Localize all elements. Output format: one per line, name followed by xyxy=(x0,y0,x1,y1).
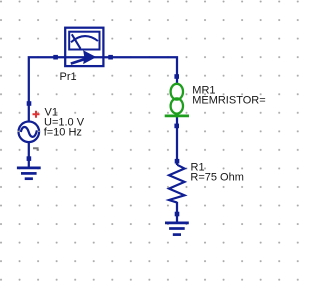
ground left xyxy=(17,168,41,179)
svg-text:Pr1: Pr1 xyxy=(60,71,77,83)
memristor bottom bar xyxy=(165,115,189,118)
node MR1 top xyxy=(174,74,179,79)
wire V1 gap cover (circle interior kept clear) xyxy=(24,121,34,143)
plus sign V1 xyxy=(33,111,40,118)
probe Pr1 outer box xyxy=(65,28,103,66)
node right of probe xyxy=(108,55,113,60)
svg-text:MEMRISTOR=: MEMRISTOR= xyxy=(192,95,265,107)
probe wire through xyxy=(65,56,103,58)
wire memristor to resistor vertical xyxy=(176,117,178,165)
probe meter needle xyxy=(72,34,81,48)
wire resistor to ground xyxy=(176,202,178,223)
V1 sine wave xyxy=(21,127,37,137)
memristor MR1 lower ellipse xyxy=(171,98,183,113)
ground right xyxy=(165,223,189,235)
node V1 bottom xyxy=(27,156,32,161)
probe Pr1 inner box xyxy=(69,32,99,50)
probe arrow head xyxy=(84,51,95,63)
probe arrow tail xyxy=(71,58,87,63)
probe meter arc xyxy=(71,36,98,42)
grid dot over circle right xyxy=(38,131,40,132)
svg-text:R=75 Ohm: R=75 Ohm xyxy=(190,172,244,184)
V1 source circle xyxy=(19,122,40,143)
grid dot over circle left xyxy=(18,131,20,132)
svg-text:f=10 Hz: f=10 Hz xyxy=(44,127,82,139)
node R1 bottom xyxy=(175,212,180,217)
node MR1 bottom xyxy=(174,124,179,129)
minus sign V1 (gray) xyxy=(33,148,39,151)
node R1 top xyxy=(175,159,180,164)
memristor stub xyxy=(176,113,178,118)
memristor MR1 upper ellipse xyxy=(171,84,183,100)
resistor R1 zigzag xyxy=(169,165,185,203)
node V1 top xyxy=(27,101,32,106)
node left of probe xyxy=(53,55,58,60)
wire top horizontal xyxy=(29,57,177,167)
